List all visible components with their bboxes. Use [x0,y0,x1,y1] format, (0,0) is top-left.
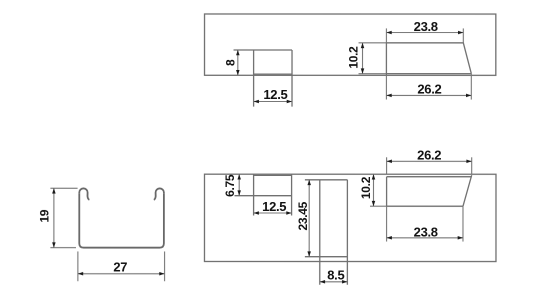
svg-text:23.8: 23.8 [414,19,438,34]
svg-text:23.8: 23.8 [414,225,438,240]
dim 10.2 (bottom trapezoid height) [359,174,387,206]
dim 23.8 (bottom trapezoid lower width) [387,206,463,241]
svg-text:10.2: 10.2 [359,176,373,199]
dim 10.2 (top trapezoid height) [346,43,386,74]
dim 27 (channel width) [78,251,165,281]
svg-text:8: 8 [224,59,238,66]
svg-text:26.2: 26.2 [417,82,441,97]
svg-text:6.75: 6.75 [223,174,237,197]
dim 23.8 (top trapezoid upper width) [386,19,463,43]
svg-text:23.45: 23.45 [296,201,310,230]
svg-text:10.2: 10.2 [346,46,360,69]
svg-text:12.5: 12.5 [262,199,286,214]
tab 12.5x6.75 on bottom strip [234,174,291,215]
svg-text:19: 19 [37,209,51,222]
dim 8 (top strip tab height) [224,50,240,75]
top strip outline [205,14,496,75]
svg-text:8.5: 8.5 [327,267,344,282]
dim 26.2 (bottom trapezoid upper width) [387,148,472,175]
tab 12.5x8 on top strip [234,50,293,107]
dim 23.45 [296,180,311,257]
trapezoid flap on bottom strip [387,175,472,206]
trapezoid flap on top strip [386,43,471,76]
svg-text:27: 27 [113,259,127,274]
slot 8.5x23.45 on bottom strip [305,180,348,285]
dim 12.5 (top strip tab width) [254,87,292,103]
dim 26.2 (top trapezoid lower width) [386,74,471,100]
dim 19 (channel height) [37,188,77,247]
dim 6.75 [223,174,241,197]
svg-text:12.5: 12.5 [263,87,287,102]
dim 8.5 [320,267,348,283]
svg-text:26.2: 26.2 [417,148,441,163]
C-channel profile [79,188,164,247]
dim 12.5 (bottom strip tab) [254,199,292,215]
bottom strip outline [204,174,496,261]
